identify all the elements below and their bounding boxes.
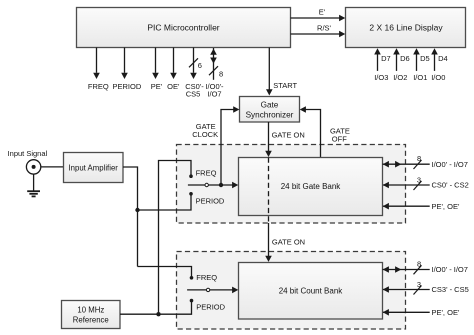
wire R/S' PIC to display — [291, 23, 346, 37]
svg-text:I/O7: I/O7 — [207, 90, 221, 99]
PIC microcontroller block — [77, 8, 291, 48]
wire E' PIC to display — [291, 7, 346, 21]
D4 data arrow — [431, 48, 447, 82]
D5 data arrow — [413, 48, 429, 82]
dashed group box gate bank section — [177, 145, 406, 224]
svg-text:10 MHz: 10 MHz — [77, 305, 104, 314]
svg-text:24 bit Gate Bank: 24 bit Gate Bank — [281, 182, 342, 191]
svg-text:OFF: OFF — [332, 135, 347, 144]
svg-text:D7: D7 — [381, 54, 391, 63]
START wire PIC to gate synchronizer — [266, 48, 298, 96]
GATE ON wire to count bank — [265, 223, 305, 262]
GATE CLOCK wire into synchronizer — [192, 106, 239, 185]
D6 data arrow — [393, 48, 409, 82]
GATE OFF wire from synchronizer to gate bank — [300, 106, 350, 157]
svg-text:GATE ON: GATE ON — [272, 238, 305, 247]
junction amplifier to period1 — [135, 208, 139, 212]
svg-text:PERIOD: PERIOD — [113, 82, 142, 91]
svg-text:Input Signal: Input Signal — [8, 149, 48, 158]
dashed group box count bank section — [177, 252, 406, 330]
svg-text:24 bit Count Bank: 24 bit Count Bank — [279, 286, 344, 295]
junction gate clock to switch 1 — [219, 183, 223, 187]
svg-text:Synchronizer: Synchronizer — [246, 111, 294, 120]
svg-text:D5: D5 — [420, 54, 430, 63]
wire riser to FREQ contact switch 1 — [159, 161, 192, 315]
svg-text:3: 3 — [417, 175, 421, 184]
svg-text:PE': PE' — [151, 82, 163, 91]
svg-text:3: 3 — [417, 280, 421, 289]
ground — [27, 174, 40, 196]
svg-text:CLOCK: CLOCK — [192, 130, 218, 139]
svg-text:6: 6 — [198, 61, 202, 70]
svg-text:I/O0: I/O0 — [431, 73, 445, 82]
OE' output arrow — [167, 48, 180, 92]
FREQ output arrow — [88, 48, 109, 92]
PERIOD output arrow — [113, 48, 142, 92]
svg-text:I/O0' - I/O7: I/O0' - I/O7 — [432, 265, 468, 274]
switch 1 common pole line — [188, 184, 233, 186]
svg-text:PERIOD: PERIOD — [196, 196, 225, 205]
PE' output arrow — [151, 48, 163, 92]
svg-text:FREQ: FREQ — [196, 168, 217, 177]
switch 2 PERIOD contact — [190, 299, 194, 303]
svg-text:R/S': R/S' — [317, 23, 332, 32]
switch 2 common pole line — [187, 289, 233, 291]
count bank PE OE line — [383, 308, 460, 317]
arrow switch 1 into gate bank — [232, 182, 238, 189]
wire amplifier to FREQ contact switch 2 — [138, 267, 192, 278]
svg-text:E': E' — [319, 7, 326, 16]
wire 10 MHz reference output — [120, 313, 159, 315]
svg-text:8: 8 — [219, 69, 223, 78]
arrow switch 2 into count bank — [232, 287, 238, 294]
count bank CS bus with width 3 slash — [383, 280, 469, 295]
svg-text:I/O0' - I/O7: I/O0' - I/O7 — [432, 160, 468, 169]
gate bank PE OE line — [383, 202, 460, 211]
svg-text:START: START — [273, 81, 297, 90]
svg-text:Input Amplifier: Input Amplifier — [68, 163, 118, 172]
wire amplifier output down — [123, 167, 138, 267]
10 MHz reference block — [62, 301, 121, 329]
24 bit gate bank block — [239, 158, 383, 216]
GATE ON wire synchronizer to gate bank — [265, 122, 305, 157]
svg-text:Reference: Reference — [73, 315, 109, 324]
switch 2 FREQ contact — [190, 276, 194, 280]
svg-text:CS0' - CS2: CS0' - CS2 — [432, 181, 469, 190]
gate bank CS bus with width 3 slash — [383, 175, 469, 190]
gate synchronizer block — [240, 97, 300, 123]
svg-text:2 X 16 Line Display: 2 X 16 Line Display — [369, 22, 443, 32]
GATE ON dashed feed-through inside gate bank — [268, 158, 270, 224]
svg-text:I/O1: I/O1 — [413, 73, 427, 82]
svg-text:PERIOD: PERIOD — [196, 302, 225, 311]
wire to PERIOD contact switch 1 — [138, 195, 192, 210]
I/O0'-I/O7 bidirectional bus with width 8 slash — [205, 48, 224, 99]
switch 1 PERIOD contact — [189, 192, 193, 196]
wire connector to input amplifier — [41, 166, 64, 168]
svg-text:FREQ: FREQ — [196, 273, 217, 282]
svg-text:GATE ON: GATE ON — [272, 131, 305, 140]
svg-text:PE', OE': PE', OE' — [432, 202, 460, 211]
D7 data arrow — [374, 48, 390, 82]
switch 1 FREQ contact — [189, 174, 193, 178]
input signal connector — [8, 149, 48, 174]
svg-text:I/O2: I/O2 — [393, 73, 407, 82]
wire to PERIOD contact switch 2 — [159, 302, 192, 315]
CS0'-CS5 bus arrow with width 6 slash — [185, 48, 204, 99]
svg-text:D4: D4 — [438, 54, 448, 63]
svg-text:CS5: CS5 — [186, 90, 201, 99]
input amplifier block — [64, 153, 124, 183]
svg-text:FREQ: FREQ — [88, 82, 109, 91]
2 X 16 line display block — [346, 8, 466, 48]
switch 2 pivot — [206, 288, 209, 291]
svg-text:I/O3: I/O3 — [374, 73, 388, 82]
svg-text:D6: D6 — [400, 54, 410, 63]
svg-text:PIC Microcontroller: PIC Microcontroller — [147, 22, 219, 32]
svg-text:PE', OE': PE', OE' — [432, 308, 460, 317]
gate bank I/O bus with width 8 slash — [383, 154, 468, 169]
svg-text:OE': OE' — [167, 82, 180, 91]
svg-text:8: 8 — [417, 260, 421, 269]
svg-text:Gate: Gate — [261, 100, 279, 109]
24 bit count bank block — [239, 263, 383, 320]
switch 1 pivot — [205, 183, 208, 186]
count bank I/O bus with width 8 slash — [383, 260, 468, 275]
junction reference to freq1 riser — [156, 312, 160, 316]
svg-text:8: 8 — [417, 154, 421, 163]
svg-text:CS3' - CS5: CS3' - CS5 — [432, 285, 469, 294]
